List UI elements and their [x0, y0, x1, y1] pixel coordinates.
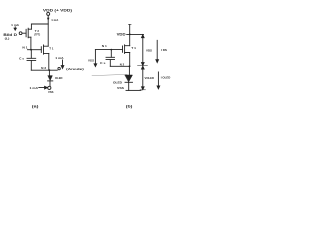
voltage arrow VDS figure b — [142, 35, 145, 66]
node N1 wire figure a — [28, 49, 42, 51]
svg-text:(b): (b) — [126, 104, 133, 109]
svg-text:N 1: N 1 — [22, 46, 28, 50]
wire input to T2 gate — [22, 32, 26, 34]
terminal VDD figure a — [47, 12, 50, 15]
wire T1 source column to node N2 figure b — [129, 53, 131, 67]
wire T1 drain column figure b — [129, 25, 131, 46]
svg-text:C s: C s — [100, 61, 106, 65]
capacitor Cs figure a — [30, 50, 32, 59]
node N2 rail figure a — [31, 69, 57, 71]
wire VDD column upper figure a — [47, 15, 49, 46]
wire OLED cathode to VSS rail figure b — [128, 82, 130, 90]
terminal VSS figure a — [48, 86, 51, 89]
tick top of VDD column figure b — [128, 23, 131, 25]
svg-text:T 1: T 1 — [131, 46, 136, 50]
wire T2 drain riser to VDD rail — [31, 24, 48, 29]
voltage arrow Vgs figure b — [94, 50, 97, 67]
svg-text:VDD: VDD — [117, 32, 127, 36]
svg-text:1 mA: 1 mA — [51, 18, 59, 22]
svg-text:OLED: OLED — [55, 76, 63, 80]
junction dot VDD rail figure b — [129, 34, 131, 36]
svg-text:(a): (a) — [32, 104, 39, 109]
current arrow IDS figure b — [156, 40, 159, 62]
svg-text:(TFT): (TFT) — [34, 32, 40, 36]
tick VOLED bottom figure b — [140, 89, 146, 91]
svg-text:I OLED: I OLED — [161, 76, 171, 80]
svg-text:N 2: N 2 — [120, 63, 125, 67]
wire T2 source drop to node N1 — [30, 37, 32, 50]
node N1 junction dot figure a — [30, 49, 32, 51]
current arrow 1mA on VDD wire figure a — [47, 18, 50, 21]
svg-text:N 2: N 2 — [41, 66, 47, 70]
svg-text:I DS: I DS — [161, 48, 167, 52]
svg-text:T 1: T 1 — [49, 47, 54, 51]
svg-text:(Anode): (Anode) — [66, 67, 84, 71]
voltage arrow VOLED figure b — [142, 66, 145, 89]
node N2 junction dot figure b — [129, 65, 131, 67]
tick VDS bottom figure b — [138, 65, 148, 67]
transistor T2 figure a — [25, 29, 27, 37]
transistor T1 figure b — [122, 46, 124, 52]
arrow down input signal figure a — [14, 27, 16, 30]
svg-text:N 1: N 1 — [102, 44, 107, 48]
svg-text:VSS: VSS — [117, 86, 124, 90]
transistor T1 figure a — [40, 47, 42, 53]
diode OLED figure a — [48, 70, 50, 75]
svg-text:VDS: VDS — [146, 49, 152, 53]
svg-text:1 mA: 1 mA — [55, 56, 64, 60]
scan artifact line figure b — [92, 74, 127, 75]
node N1 junction dot figure b — [110, 49, 112, 51]
capacitor Cs figure b — [110, 50, 112, 58]
node N2 junction dot figure a — [49, 69, 51, 71]
current arrow IOLED figure b — [157, 72, 160, 89]
svg-text:C s: C s — [19, 57, 24, 61]
terminal input figure a — [19, 32, 22, 35]
svg-text:VGS: VGS — [88, 58, 94, 62]
terminal small circle N2 rail end figure a — [58, 67, 60, 69]
rail VDD figure b — [127, 33, 144, 35]
svg-text:1 mA: 1 mA — [30, 86, 39, 90]
wire OLED cathode to VSS terminal figure a — [49, 81, 51, 86]
svg-text:OLED: OLED — [113, 81, 122, 85]
svg-text:VOLED: VOLED — [145, 76, 155, 80]
current arrow into VSS terminal figure a — [39, 86, 48, 89]
svg-text:VDD (+ VDD): VDD (+ VDD) — [43, 9, 72, 13]
svg-text:(L): (L) — [5, 37, 10, 41]
wire T1 source column to node N2 — [48, 53, 50, 70]
node N2 rail figure b — [110, 65, 129, 67]
rail VSS figure b — [126, 89, 141, 91]
current arrow into N2 rail figure a — [61, 60, 64, 69]
diode OLED figure b — [128, 66, 130, 75]
node N1 wire figure b — [95, 49, 122, 51]
svg-text:VSS: VSS — [48, 90, 54, 94]
